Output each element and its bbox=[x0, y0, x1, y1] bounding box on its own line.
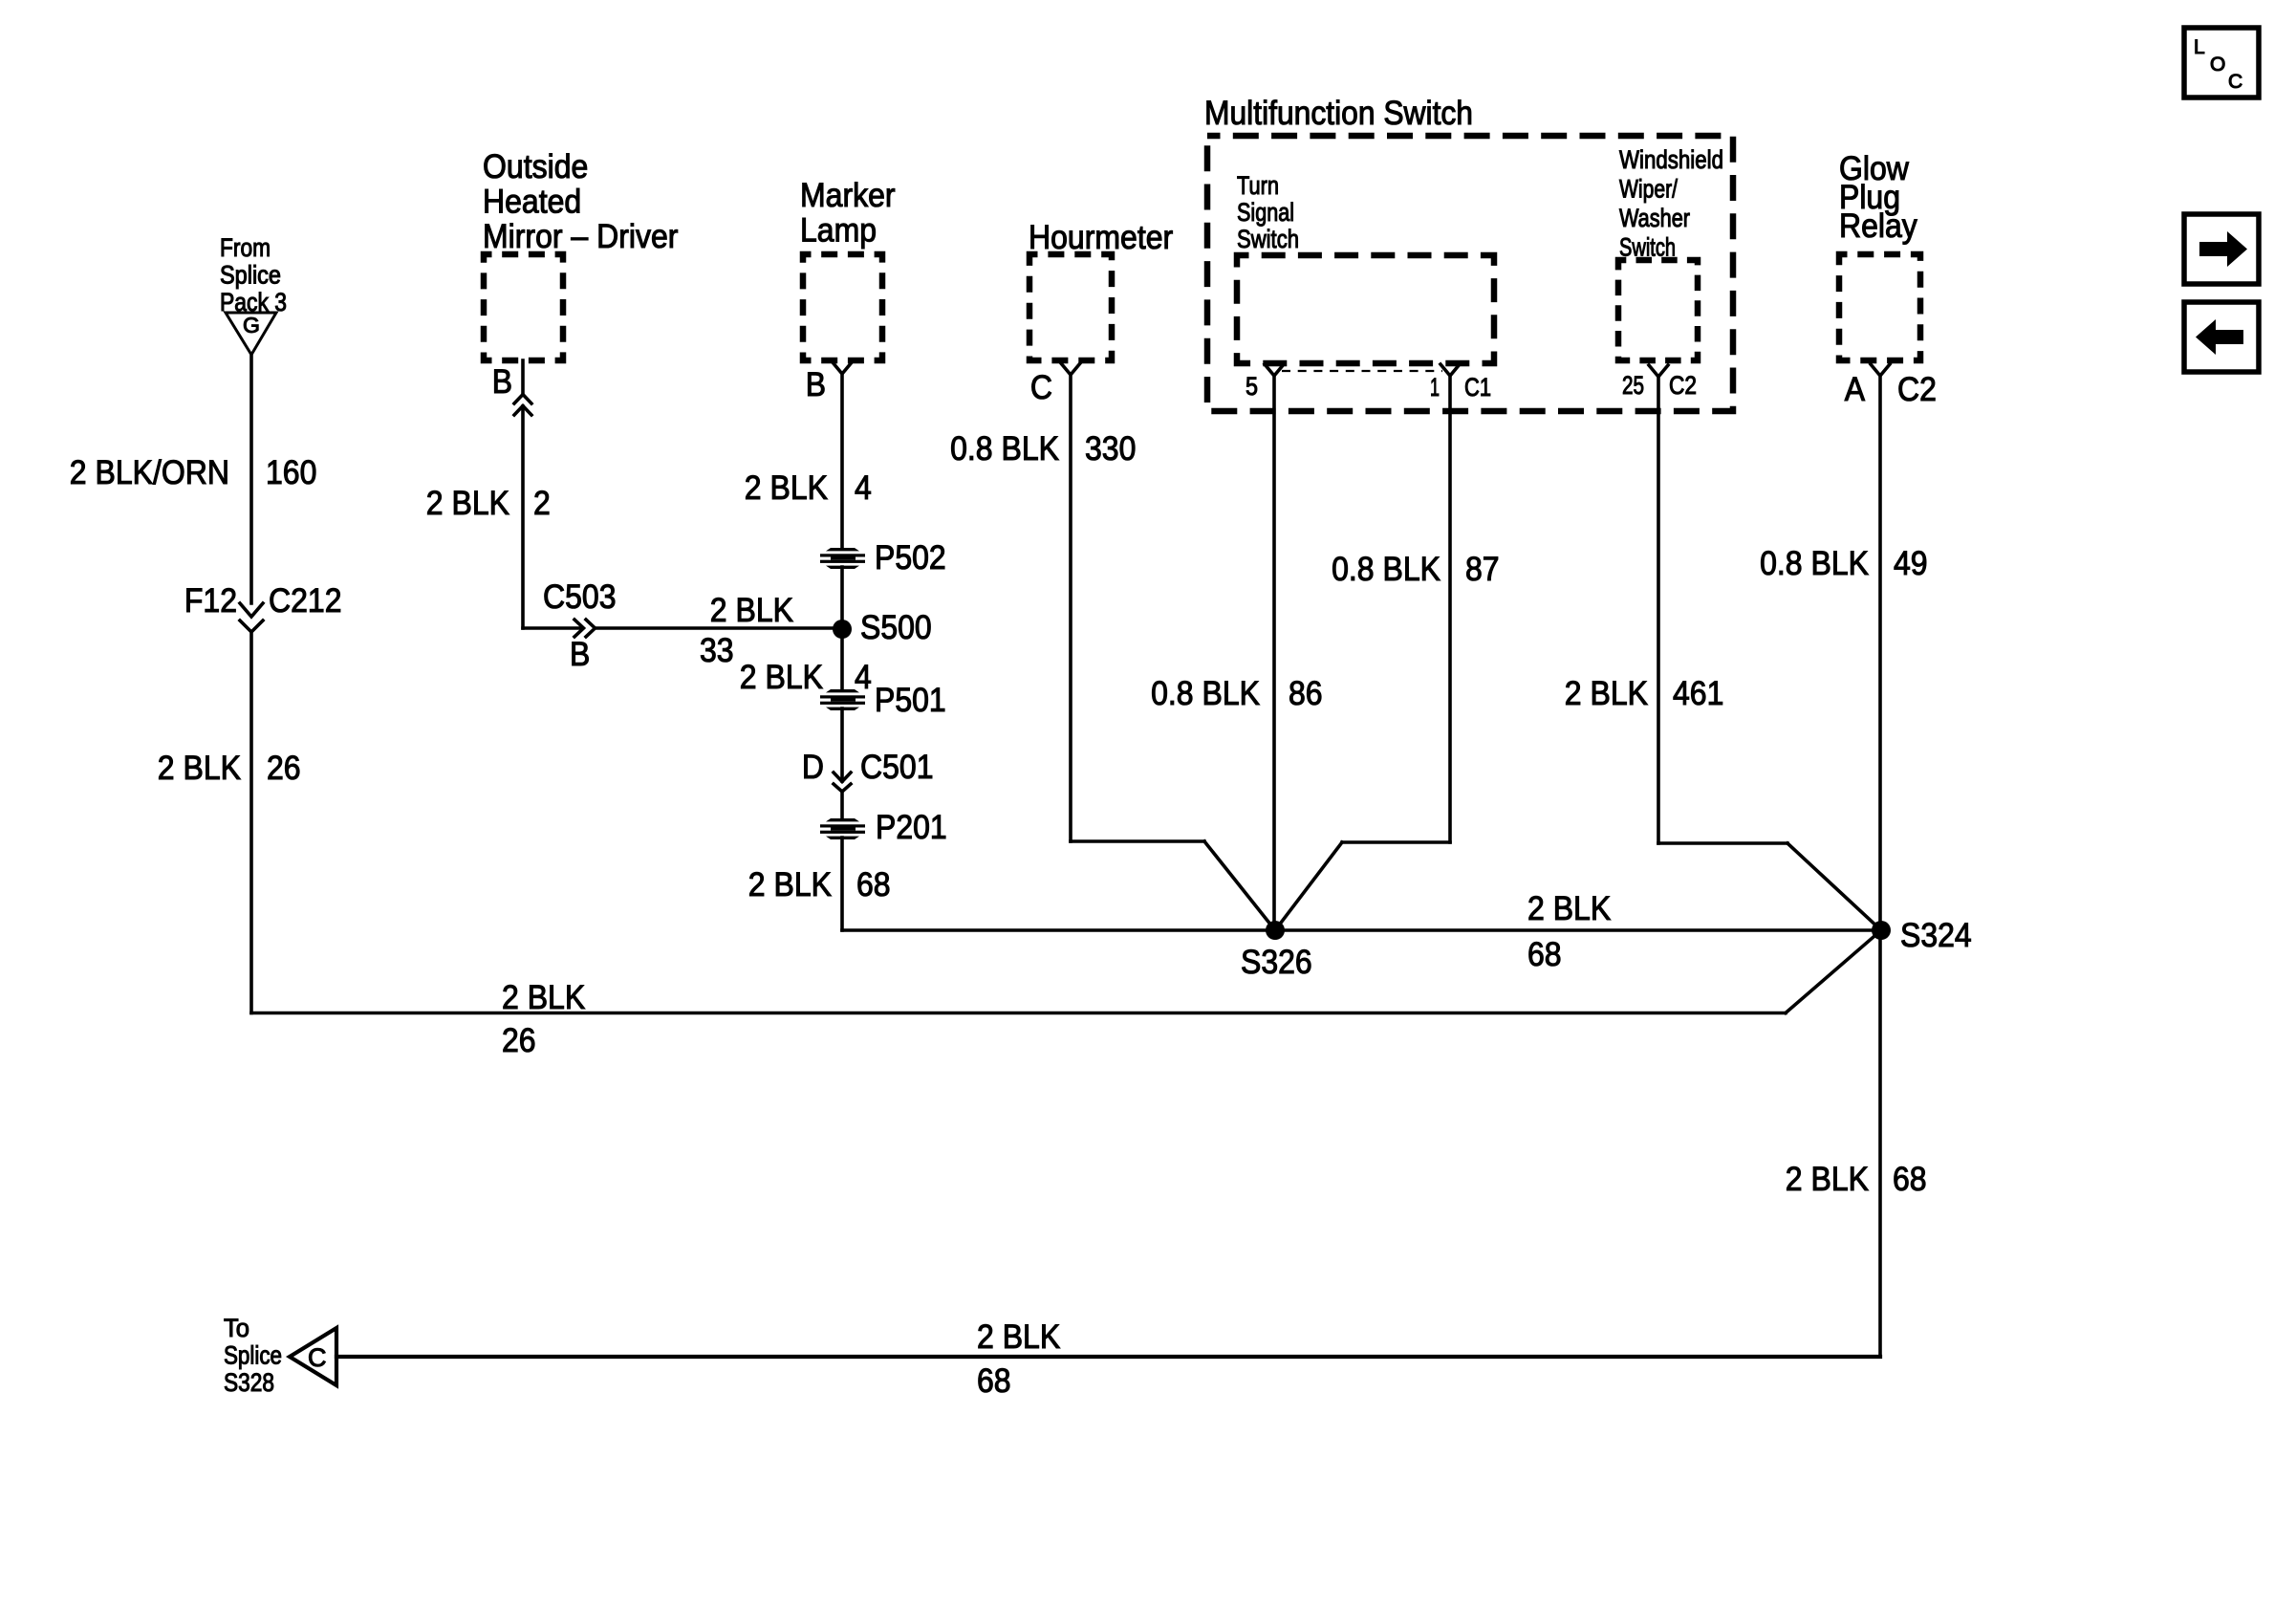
junction dot S324 bbox=[1872, 921, 1891, 940]
svg-text:Washer: Washer bbox=[1619, 204, 1690, 232]
icon: forward arrow bbox=[2196, 231, 2247, 355]
icon: back arrow bbox=[2196, 319, 2243, 355]
svg-text:2 BLK: 2 BLK bbox=[1786, 1161, 1869, 1198]
svg-text:0.8 BLK: 0.8 BLK bbox=[1760, 545, 1869, 582]
svg-text:68: 68 bbox=[1893, 1161, 1927, 1198]
svg-text:Wiper/: Wiper/ bbox=[1619, 175, 1678, 204]
svg-text:Mirror – Driver: Mirror – Driver bbox=[483, 218, 679, 255]
pin fork: wiper 25 bbox=[1649, 365, 1668, 377]
svg-text:330: 330 bbox=[1085, 430, 1136, 468]
svg-text:2 BLK: 2 BLK bbox=[1565, 675, 1648, 712]
connector symbol P501 bbox=[820, 689, 865, 710]
svg-text:26: 26 bbox=[267, 750, 301, 787]
nav box: forward arrow bbox=[2184, 214, 2259, 284]
svg-text:26: 26 bbox=[502, 1022, 536, 1059]
wire: C503 horizontal segment left bbox=[523, 626, 582, 630]
svg-text:25: 25 bbox=[1622, 371, 1644, 400]
wire: hourmeter jog horizontal bbox=[1071, 839, 1204, 843]
pin fork: turn signal 5 bbox=[1265, 364, 1284, 376]
svg-text:2 BLK: 2 BLK bbox=[1527, 890, 1611, 927]
connector break C212 arrow bbox=[240, 603, 263, 617]
svg-text:S324: S324 bbox=[1900, 917, 1972, 954]
svg-text:49: 49 bbox=[1894, 545, 1928, 582]
pin fork: marker lamp B bbox=[833, 362, 852, 374]
svg-text:Splice: Splice bbox=[224, 1341, 282, 1370]
svg-text:C2: C2 bbox=[1669, 371, 1697, 400]
svg-text:Relay: Relay bbox=[1839, 207, 1917, 245]
svg-text:S500: S500 bbox=[860, 609, 932, 646]
wire: pin 1 diagonal into S326 bbox=[1275, 842, 1342, 930]
svg-text:Switch: Switch bbox=[1237, 225, 1299, 253]
component box: hourmeter (dashed) bbox=[1029, 254, 1112, 360]
connector symbol C503: double chevron right bbox=[574, 620, 584, 637]
wire: circuit 2 vertical from mirror bbox=[521, 406, 525, 628]
svg-text:86: 86 bbox=[1289, 675, 1323, 712]
svg-text:C: C bbox=[308, 1343, 327, 1372]
wire: circuit 68 bottom horizontal to splice S328 bbox=[336, 1355, 1880, 1359]
svg-text:2 BLK: 2 BLK bbox=[977, 1318, 1060, 1356]
svg-text:2 BLK: 2 BLK bbox=[710, 592, 793, 629]
svg-text:To: To bbox=[224, 1314, 249, 1342]
svg-text:2 BLK: 2 BLK bbox=[158, 750, 241, 787]
wire: circuit 26 vertical below C212 bbox=[249, 632, 253, 1013]
wire: circuit 33 horizontal to S500 bbox=[596, 626, 842, 630]
svg-text:C501: C501 bbox=[860, 749, 934, 786]
dashed link between pin 5 and pin 1 bbox=[1282, 370, 1442, 372]
svg-text:C2: C2 bbox=[1897, 371, 1937, 408]
svg-text:33: 33 bbox=[700, 632, 734, 669]
svg-text:Signal: Signal bbox=[1237, 198, 1294, 227]
wire: marker lamp circuit 4 upper bbox=[840, 374, 844, 549]
wire: turn signal pin 5 circuit 86 vertical bbox=[1272, 376, 1276, 930]
nav box: back arrow bbox=[2184, 302, 2259, 372]
wire: below C501 to P201 bbox=[840, 792, 844, 819]
svg-text:D: D bbox=[802, 749, 824, 786]
svg-text:Turn: Turn bbox=[1237, 171, 1279, 200]
svg-text:G: G bbox=[243, 313, 260, 337]
svg-text:0.8 BLK: 0.8 BLK bbox=[1332, 551, 1440, 588]
svg-text:461: 461 bbox=[1673, 675, 1723, 712]
svg-text:4: 4 bbox=[855, 659, 872, 696]
svg-text:L: L bbox=[2194, 36, 2205, 58]
svg-text:Windshield: Windshield bbox=[1619, 145, 1723, 174]
connector break C501 arrow bbox=[834, 773, 851, 782]
node: to splice S328 triangle C bbox=[290, 1328, 336, 1385]
wire: splice pack G vertical, circuit 160 bbox=[249, 355, 253, 603]
wire: wiper diagonal into S324 bbox=[1787, 843, 1881, 930]
wire: below P501 to C501 break bbox=[840, 708, 844, 781]
svg-text:Multifunction Switch: Multifunction Switch bbox=[1204, 95, 1473, 132]
wire: circuit 26 long horizontal bbox=[251, 1012, 1786, 1015]
wire: circuit 68 below P201 down to bus bbox=[840, 838, 844, 930]
svg-text:C212: C212 bbox=[269, 582, 342, 620]
svg-text:4: 4 bbox=[855, 469, 872, 507]
svg-text:B: B bbox=[570, 636, 590, 673]
svg-text:2 BLK: 2 BLK bbox=[740, 659, 823, 696]
wire: glow plug relay circuit 49/68 vertical bbox=[1878, 376, 1882, 1357]
node: splice pack triangle G bbox=[226, 313, 276, 355]
loc box bbox=[2184, 28, 2259, 372]
svg-text:Heated: Heated bbox=[483, 184, 581, 221]
wire: diagonal from 26 horizontal up to S324 bbox=[1786, 930, 1881, 1013]
svg-text:From: From bbox=[220, 233, 271, 262]
svg-text:2: 2 bbox=[533, 485, 551, 522]
svg-text:2 BLK: 2 BLK bbox=[426, 485, 509, 522]
svg-text:A: A bbox=[1845, 371, 1866, 408]
svg-text:S328: S328 bbox=[224, 1368, 274, 1397]
svg-text:B: B bbox=[806, 366, 826, 403]
svg-text:2 BLK: 2 BLK bbox=[748, 866, 832, 903]
wire: turn signal pin 1 circuit 87 vertical bbox=[1448, 376, 1452, 842]
svg-text:C503: C503 bbox=[543, 578, 617, 616]
svg-text:C1: C1 bbox=[1464, 373, 1491, 402]
svg-text:Outside: Outside bbox=[483, 148, 588, 185]
svg-text:P502: P502 bbox=[875, 539, 946, 577]
component box: glow plug relay (dashed) bbox=[1839, 254, 1920, 360]
svg-text:S326: S326 bbox=[1241, 944, 1312, 981]
wire: ground bus horizontal S326 to S324 bbox=[842, 928, 1881, 932]
junction dot S500 bbox=[833, 620, 852, 639]
component box: windshield wiper/washer switch inner (dashed) bbox=[1618, 260, 1698, 360]
connector symbol P201 bbox=[820, 818, 865, 839]
component box: marker lamp (dashed) bbox=[803, 254, 882, 360]
svg-text:2 BLK: 2 BLK bbox=[502, 979, 585, 1016]
svg-text:5: 5 bbox=[1245, 372, 1258, 401]
wire: hourmeter circuit 330 vertical bbox=[1069, 375, 1072, 841]
svg-text:1: 1 bbox=[1430, 373, 1440, 402]
wire: hourmeter diagonal into S326 bbox=[1204, 841, 1275, 930]
wire: wiper pin 25 circuit 461 vertical bbox=[1657, 377, 1660, 843]
svg-text:Splice: Splice bbox=[220, 261, 281, 290]
svg-text:P501: P501 bbox=[875, 682, 946, 719]
svg-text:Lamp: Lamp bbox=[800, 212, 877, 250]
svg-text:F12: F12 bbox=[184, 582, 237, 620]
svg-text:2 BLK/ORN: 2 BLK/ORN bbox=[70, 454, 229, 491]
component box: outside heated mirror (dashed) bbox=[484, 254, 1920, 363]
svg-text:87: 87 bbox=[1465, 551, 1500, 588]
pin fork: turn signal 1 bbox=[1440, 364, 1460, 376]
connector break C501 chevron bbox=[834, 784, 851, 792]
svg-text:Hourmeter: Hourmeter bbox=[1029, 219, 1174, 256]
svg-text:160: 160 bbox=[266, 454, 316, 491]
connector symbol P502 bbox=[820, 548, 865, 569]
svg-text:O: O bbox=[2210, 54, 2225, 76]
pin fork: glow plug A bbox=[1871, 364, 1890, 376]
svg-text:Switch: Switch bbox=[1619, 233, 1676, 262]
svg-text:P201: P201 bbox=[876, 809, 947, 846]
svg-text:68: 68 bbox=[1527, 936, 1562, 973]
wire: pin 1 jog horizontal bbox=[1342, 840, 1450, 844]
connector break C212 chevron bbox=[240, 620, 263, 632]
svg-text:Marker: Marker bbox=[800, 177, 896, 214]
svg-text:B: B bbox=[492, 363, 512, 401]
svg-text:0.8 BLK: 0.8 BLK bbox=[950, 430, 1059, 468]
svg-text:2 BLK: 2 BLK bbox=[745, 469, 828, 507]
svg-text:C: C bbox=[2228, 71, 2242, 93]
component box: turn signal switch inner (dashed) bbox=[1237, 255, 1494, 363]
svg-text:0.8 BLK: 0.8 BLK bbox=[1151, 675, 1260, 712]
component box: multifunction switch outer (dashed) bbox=[1207, 136, 1733, 411]
wire: wiper jog horizontal bbox=[1658, 841, 1787, 845]
svg-text:68: 68 bbox=[856, 866, 891, 903]
svg-text:C: C bbox=[1030, 369, 1052, 406]
junction dot S326 bbox=[1266, 921, 1285, 940]
connector symbol: double chevron up (mirror B) bbox=[514, 395, 531, 404]
pin fork: hourmeter C bbox=[1061, 363, 1080, 375]
svg-text:68: 68 bbox=[977, 1362, 1011, 1400]
wire: between P502 and P501 through S500 bbox=[840, 567, 844, 690]
wire: mirror pin B stub bbox=[521, 360, 525, 394]
